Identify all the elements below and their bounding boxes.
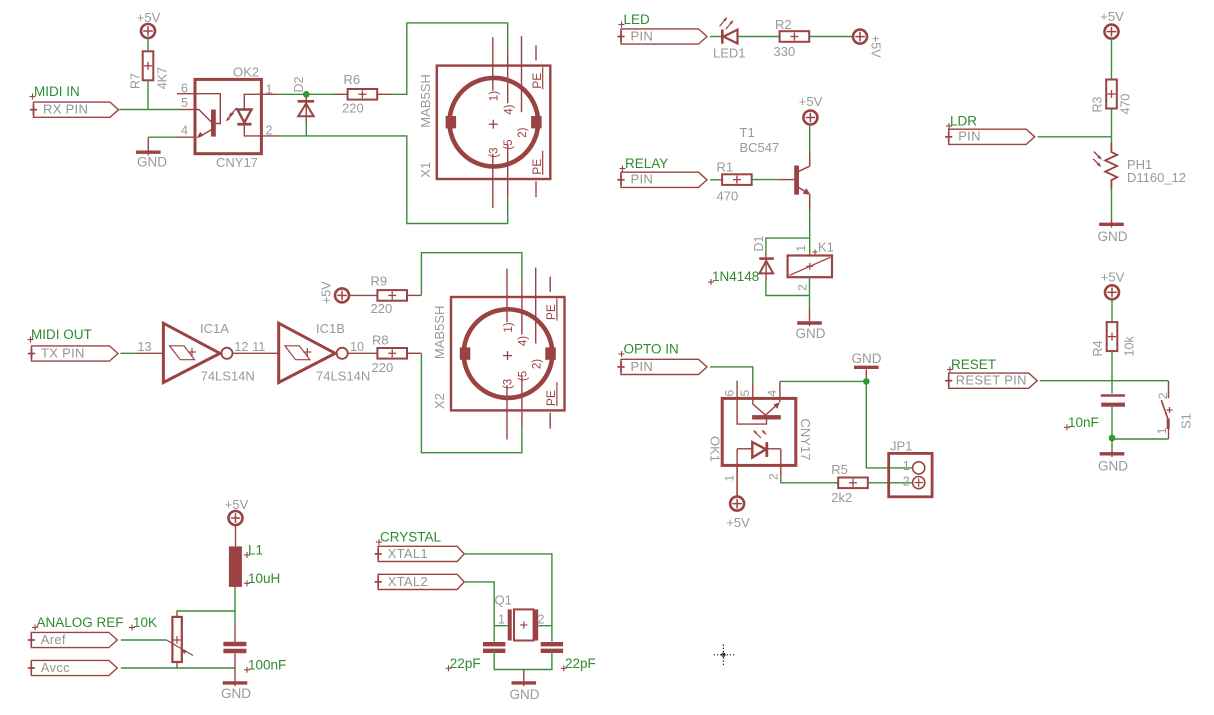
svg-text:330: 330 bbox=[774, 44, 796, 59]
svg-text:IC1B: IC1B bbox=[316, 321, 345, 336]
svg-text:CRYSTAL: CRYSTAL bbox=[380, 530, 442, 545]
label OK2 bbox=[233, 64, 259, 79]
power +5V (OPTO) bbox=[726, 497, 750, 530]
ground GND (LDR) bbox=[1098, 218, 1128, 244]
svg-text:5: 5 bbox=[181, 96, 188, 110]
node junction D2 bbox=[303, 91, 310, 98]
net label 10K bbox=[129, 615, 157, 631]
svg-text:220: 220 bbox=[372, 360, 394, 375]
svg-text:LED1: LED1 bbox=[713, 46, 746, 61]
wire IC1B out to R8 bbox=[348, 352, 378, 354]
inductor L1 bbox=[229, 543, 263, 587]
svg-text:2k2: 2k2 bbox=[831, 490, 852, 505]
svg-text:BC547: BC547 bbox=[740, 140, 780, 155]
svg-text:OK2: OK2 bbox=[233, 64, 259, 79]
resistor R4 bbox=[1091, 322, 1137, 356]
svg-text:GND: GND bbox=[852, 351, 882, 366]
svg-text:GND: GND bbox=[796, 326, 826, 341]
wire D1 to K1 pin2 bbox=[766, 280, 810, 296]
origin crosshair bbox=[714, 645, 735, 667]
svg-text:XTAL2: XTAL2 bbox=[388, 574, 428, 589]
svg-text:CNY17: CNY17 bbox=[798, 419, 813, 461]
svg-text:6: 6 bbox=[181, 82, 188, 96]
svg-text:R7: R7 bbox=[129, 73, 143, 89]
svg-text:RESET: RESET bbox=[951, 357, 996, 372]
wire R8 to X2 pin5 bbox=[407, 353, 522, 452]
net label MIDI OUT bbox=[28, 327, 92, 343]
wire +5V to T1 collector bbox=[809, 125, 811, 153]
svg-text:10k: 10k bbox=[1123, 336, 1137, 357]
photoresistor PH1 bbox=[1093, 143, 1186, 189]
flag XTAL1 bbox=[375, 546, 465, 562]
connector X2 (MAB5SH DIN) bbox=[432, 268, 565, 440]
svg-text:MIDI IN: MIDI IN bbox=[34, 84, 80, 99]
svg-text:1: 1 bbox=[723, 475, 737, 482]
net label ANALOG REF bbox=[32, 615, 124, 631]
label 74LS14N (IC1B) bbox=[316, 369, 370, 384]
svg-text:PE: PE bbox=[530, 73, 544, 89]
svg-text:10: 10 bbox=[350, 340, 364, 354]
value 10uH bbox=[244, 571, 280, 586]
wire R1 to T1 base bbox=[751, 179, 795, 181]
capacitor 22pF left bbox=[446, 644, 506, 671]
svg-text:2): 2) bbox=[531, 359, 543, 369]
svg-text:MIDI OUT: MIDI OUT bbox=[31, 327, 92, 342]
inverter gate IC1A bbox=[163, 323, 232, 382]
svg-text:R2: R2 bbox=[775, 17, 792, 32]
svg-text:1: 1 bbox=[1155, 427, 1169, 434]
svg-text:100nF: 100nF bbox=[248, 658, 286, 673]
svg-text:D1: D1 bbox=[752, 235, 766, 251]
svg-text:5: 5 bbox=[738, 390, 752, 397]
wire PIN to R1 bbox=[710, 179, 723, 181]
svg-text:(5: (5 bbox=[503, 139, 515, 149]
svg-text:+5V: +5V bbox=[320, 281, 334, 304]
wire C to junction bbox=[1111, 407, 1113, 438]
ground GND (RESET) bbox=[1098, 450, 1128, 473]
transistor T1 bbox=[740, 125, 811, 210]
svg-text:K1: K1 bbox=[818, 240, 834, 255]
svg-text:+5V: +5V bbox=[869, 35, 883, 58]
svg-text:R3: R3 bbox=[1091, 96, 1105, 112]
net label LED bbox=[619, 12, 651, 28]
inverter gate IC1B bbox=[279, 323, 348, 382]
wire PIN to LED1 bbox=[710, 36, 722, 38]
svg-text:PIN: PIN bbox=[958, 129, 981, 144]
resistor R6 bbox=[342, 72, 377, 116]
svg-text:PIN: PIN bbox=[631, 28, 654, 43]
svg-text:470: 470 bbox=[1119, 94, 1133, 115]
svg-text:+5V: +5V bbox=[1101, 270, 1125, 285]
svg-text:12: 12 bbox=[234, 340, 248, 354]
svg-text:RESET PIN: RESET PIN bbox=[956, 373, 1027, 388]
wire R9 to X2 pin4 bbox=[407, 253, 522, 296]
wire +5V to L1 bbox=[235, 525, 237, 547]
wire R5 to JP1 pin2 bbox=[868, 482, 913, 484]
svg-text:PIN: PIN bbox=[631, 172, 654, 187]
svg-text:GND: GND bbox=[221, 686, 251, 701]
svg-text:4: 4 bbox=[765, 390, 779, 397]
svg-text:PE: PE bbox=[530, 159, 544, 175]
svg-text:X1: X1 bbox=[418, 162, 433, 178]
resistor R8 bbox=[372, 333, 408, 376]
wire +5V to R4 bbox=[1111, 299, 1113, 322]
wire OK1 pin4 to GND junction bbox=[780, 380, 866, 382]
svg-text:ANALOG REF: ANALOG REF bbox=[37, 615, 124, 630]
svg-text:GND: GND bbox=[1098, 459, 1128, 474]
pin header JP1 bbox=[889, 438, 932, 496]
diode D2 bbox=[292, 76, 314, 122]
power +5V (LDR) bbox=[1100, 9, 1124, 39]
flag LDR PIN bbox=[945, 129, 1035, 145]
power +5V (LED) bbox=[853, 30, 883, 59]
diode LED1 bbox=[713, 18, 746, 61]
svg-text:T1: T1 bbox=[740, 125, 755, 140]
wire RX PIN to OK2 pin5 bbox=[120, 109, 180, 111]
wire caps to GND bbox=[494, 651, 552, 670]
diode D1 bbox=[752, 235, 774, 280]
pin 13 stub IC1A bbox=[137, 340, 163, 354]
wire Q1 pin2 stub bbox=[538, 625, 552, 627]
power +5V (MIDI IN) bbox=[137, 10, 161, 38]
svg-text:10uH: 10uH bbox=[248, 571, 280, 586]
flag TX PIN bbox=[28, 345, 118, 361]
svg-text:2): 2) bbox=[517, 127, 529, 137]
svg-text:XTAL1: XTAL1 bbox=[388, 546, 428, 561]
power +5V (ANALOG REF) bbox=[225, 497, 249, 525]
wire junction to GND bbox=[1111, 438, 1113, 450]
svg-text:LED: LED bbox=[624, 12, 651, 27]
flag RESET PIN bbox=[945, 373, 1037, 389]
svg-text:1: 1 bbox=[903, 459, 910, 473]
label IC1A bbox=[200, 321, 229, 336]
wire OK2 pin4 to GND bbox=[148, 136, 177, 138]
svg-text:2: 2 bbox=[796, 284, 810, 291]
svg-text:4): 4) bbox=[503, 104, 515, 114]
svg-text:10nF: 10nF bbox=[1068, 415, 1099, 430]
svg-text:PIN: PIN bbox=[631, 359, 654, 374]
resistor R5 bbox=[831, 462, 868, 505]
label CNY17 (OK1) bbox=[798, 419, 813, 461]
svg-text:4): 4) bbox=[518, 336, 530, 346]
relay K1 bbox=[788, 240, 834, 292]
wire R6 to X1 pin4 bbox=[377, 23, 508, 94]
svg-text:22pF: 22pF bbox=[565, 656, 596, 671]
svg-text:13: 13 bbox=[138, 340, 152, 354]
wire +5V to R9 bbox=[349, 294, 378, 296]
potentiometer 10K trimmer bbox=[167, 617, 194, 662]
connector X1 (MAB5SH DIN) bbox=[418, 36, 551, 208]
pin 10 label bbox=[350, 340, 364, 354]
svg-text:D1160_12: D1160_12 bbox=[1127, 170, 1186, 185]
svg-text:GND: GND bbox=[137, 155, 167, 170]
net label RESET bbox=[947, 357, 996, 373]
wire OK1 pin2 to R5 bbox=[781, 477, 839, 483]
wire OK1 pin1 to +5V bbox=[736, 465, 738, 496]
ground GND (CRYSTAL) bbox=[510, 670, 540, 703]
svg-text:Avcc: Avcc bbox=[41, 660, 70, 675]
svg-text:GND: GND bbox=[510, 687, 540, 702]
label OK1 bbox=[708, 436, 723, 462]
power +5V (RELAY) bbox=[799, 94, 823, 125]
svg-text:2: 2 bbox=[538, 613, 545, 627]
flag RX PIN bbox=[30, 102, 119, 118]
wire T1 emitter to K1 bbox=[809, 210, 811, 256]
svg-text:Q1: Q1 bbox=[495, 593, 512, 608]
flag RELAY PIN bbox=[617, 172, 707, 188]
svg-text:R1: R1 bbox=[717, 160, 734, 175]
wire TX PIN to IC1A bbox=[121, 352, 138, 354]
label IC1B bbox=[316, 321, 345, 336]
label CNY17 (OK2) bbox=[216, 155, 258, 170]
node R7/RXPIN junction bbox=[147, 109, 149, 111]
resistor R2 bbox=[774, 17, 810, 59]
svg-text:JP1: JP1 bbox=[890, 438, 912, 453]
svg-text:4K7: 4K7 bbox=[156, 67, 170, 89]
label 74LS14N (IC1A) bbox=[201, 369, 255, 384]
svg-text:X2: X2 bbox=[432, 393, 447, 409]
wire S1 to junction bbox=[1112, 438, 1169, 440]
svg-text:+5V: +5V bbox=[1100, 9, 1124, 24]
svg-text:OPTO IN: OPTO IN bbox=[624, 342, 679, 357]
svg-text:R8: R8 bbox=[372, 333, 389, 348]
svg-text:LDR: LDR bbox=[950, 114, 977, 129]
flag Aref bbox=[28, 632, 118, 648]
wire LED1 to R2 bbox=[738, 36, 780, 38]
resistor R1 bbox=[717, 160, 752, 204]
svg-text:R4: R4 bbox=[1091, 340, 1105, 356]
svg-text:6: 6 bbox=[722, 390, 736, 397]
net label OPTO IN bbox=[619, 342, 679, 358]
svg-text:MAB5SH: MAB5SH bbox=[432, 306, 447, 359]
wire +5V to R3 bbox=[1111, 38, 1113, 79]
resistor R9 bbox=[371, 274, 408, 317]
wire junction to JP1 pin1 bbox=[866, 381, 912, 468]
wire Q1 pin1 stub bbox=[494, 625, 507, 627]
crystal Q1 bbox=[495, 593, 545, 641]
svg-text:MAB5SH: MAB5SH bbox=[418, 74, 433, 127]
wire branch to pot bbox=[177, 611, 235, 617]
flag XTAL2 bbox=[375, 574, 465, 590]
switch S1 bbox=[1155, 381, 1194, 439]
svg-text:PE: PE bbox=[544, 304, 558, 320]
svg-text:RELAY: RELAY bbox=[625, 156, 668, 171]
svg-text:11: 11 bbox=[252, 340, 265, 354]
ground GND (MIDI IN) bbox=[136, 137, 167, 169]
resistor R7 bbox=[129, 51, 170, 89]
svg-text:2: 2 bbox=[903, 475, 910, 489]
optocoupler OK1 bbox=[722, 381, 796, 497]
svg-text:74LS14N: 74LS14N bbox=[201, 369, 255, 384]
svg-text:1: 1 bbox=[794, 245, 808, 252]
wire PH1 to GND bbox=[1111, 188, 1113, 218]
wire pot to Avcc net bbox=[176, 662, 178, 668]
node junction GND/JP1 bbox=[863, 378, 870, 385]
wire +5V to R7 bbox=[147, 38, 149, 52]
wire R4 to RESET net bbox=[1111, 351, 1113, 393]
wire PIN to OK1 pin5 bbox=[710, 367, 753, 383]
wire emitter branch to D1 bbox=[766, 238, 810, 253]
power +5V (RESET) bbox=[1101, 270, 1125, 300]
wire XTAL1 to Q1 pin2 bbox=[465, 554, 552, 642]
svg-text:+5V: +5V bbox=[799, 94, 823, 109]
wire C to GND bbox=[234, 654, 236, 669]
wire PIN to R3/PH1 bbox=[1038, 136, 1112, 138]
wire R3 to LDR net bbox=[1111, 109, 1113, 145]
svg-text:OK1: OK1 bbox=[708, 436, 723, 462]
svg-text:10K: 10K bbox=[133, 615, 157, 630]
net label RELAY bbox=[620, 156, 669, 172]
net label LDR bbox=[946, 114, 977, 130]
wire L1 to C100nF bbox=[234, 587, 236, 642]
power +5V (MIDI OUT) bbox=[320, 281, 350, 304]
ground GND (OPTO, flipped) bbox=[852, 351, 882, 378]
wire IC1A to IC1B bbox=[233, 352, 279, 354]
svg-text:+5V: +5V bbox=[225, 497, 249, 512]
svg-text:R5: R5 bbox=[831, 462, 848, 477]
svg-text:Aref: Aref bbox=[41, 632, 66, 647]
svg-text:IC1A: IC1A bbox=[200, 321, 229, 336]
svg-text:R9: R9 bbox=[371, 274, 388, 289]
node junction RESET GND bbox=[1109, 435, 1116, 442]
svg-text:GND: GND bbox=[1098, 229, 1128, 244]
svg-text:(3: (3 bbox=[503, 379, 515, 389]
wire XTAL2 to Q1 pin1 bbox=[465, 582, 495, 642]
op-amp/optocoupler OK2 bbox=[177, 79, 278, 153]
svg-text:1): 1) bbox=[489, 91, 501, 101]
wire Aref to pot wiper bbox=[121, 639, 167, 641]
svg-text:R6: R6 bbox=[344, 72, 361, 87]
flag LED PIN bbox=[617, 28, 707, 44]
net label CRYSTAL bbox=[376, 530, 442, 546]
svg-text:+5V: +5V bbox=[137, 10, 161, 25]
capacitor 10nF bbox=[1064, 396, 1125, 431]
svg-text:D2: D2 bbox=[292, 76, 306, 92]
wire D2 to pin2 net bbox=[305, 123, 307, 137]
svg-text:470: 470 bbox=[717, 189, 739, 204]
capacitor 100nF bbox=[223, 644, 286, 673]
resistor R3 bbox=[1091, 80, 1133, 115]
svg-text:L1: L1 bbox=[248, 543, 263, 558]
wire R2 to +5V bbox=[809, 36, 853, 38]
wire OK2 pin1 to R6 bbox=[278, 93, 347, 95]
svg-text:TX PIN: TX PIN bbox=[41, 345, 85, 360]
svg-text:S1: S1 bbox=[1179, 413, 1194, 429]
flag Avcc bbox=[28, 660, 118, 676]
svg-text:(3: (3 bbox=[488, 147, 500, 157]
wire Avcc net bbox=[121, 667, 235, 669]
svg-text:74LS14N: 74LS14N bbox=[316, 369, 370, 384]
svg-text:1: 1 bbox=[498, 613, 505, 627]
svg-text:220: 220 bbox=[342, 101, 364, 116]
ground GND (ANALOG REF) bbox=[221, 668, 251, 701]
svg-text:PE: PE bbox=[544, 390, 558, 406]
svg-text:1): 1) bbox=[503, 322, 515, 332]
svg-text:2: 2 bbox=[1156, 392, 1170, 399]
pin 12 and 11 labels bbox=[234, 340, 265, 354]
svg-text:4: 4 bbox=[181, 124, 188, 138]
wire OK2 pin2 to X1 pin5 bbox=[278, 136, 507, 224]
wire K1 pin2 to GND bbox=[809, 277, 811, 309]
svg-text:+5V: +5V bbox=[726, 515, 750, 530]
svg-text:1N4148: 1N4148 bbox=[712, 269, 759, 284]
wire R7 to RX PIN net bbox=[147, 80, 149, 109]
svg-text:RX PIN: RX PIN bbox=[43, 102, 88, 117]
svg-text:1: 1 bbox=[266, 83, 273, 97]
ground GND (RELAY) bbox=[796, 309, 826, 341]
svg-text:(5: (5 bbox=[517, 371, 529, 381]
svg-text:2: 2 bbox=[767, 473, 781, 480]
svg-text:2: 2 bbox=[266, 124, 273, 138]
svg-text:220: 220 bbox=[371, 301, 393, 316]
capacitor 22pF right bbox=[541, 644, 596, 671]
flag OPTO PIN bbox=[617, 359, 707, 375]
value 1N4148 bbox=[708, 269, 759, 285]
svg-text:22pF: 22pF bbox=[450, 656, 481, 671]
wire RESET PIN to S1 bbox=[1040, 380, 1169, 382]
svg-text:CNY17: CNY17 bbox=[216, 155, 258, 170]
net label MIDI IN bbox=[30, 84, 80, 100]
